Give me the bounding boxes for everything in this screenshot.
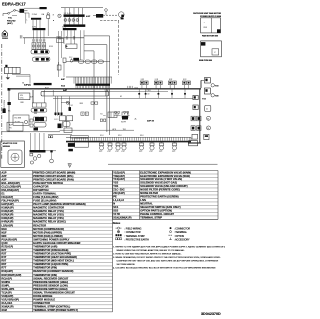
svg-text:Y3S: Y3S — [113, 184, 118, 188]
svg-text:MOTOR (COMPRESSOR): MOTOR (COMPRESSOR) — [33, 227, 64, 231]
svg-text:R31T,R32T(A2P): R31T,R32T(A2P) — [1, 273, 21, 277]
svg-text:S2S: S2S — [113, 209, 118, 213]
svg-text:PRINTED CIRCUIT BOARD (MAIN): PRINTED CIRCUIT BOARD (MAIN) — [33, 170, 75, 174]
svg-text:SOLENOID VALVE (HOT GAS): SOLENOID VALVE (HOT GAS) — [140, 181, 177, 185]
svg-text:PROTECTIVE EARTH (SCREW): PROTECTIVE EARTH (SCREW) — [140, 195, 178, 199]
svg-text:RESISTOR (CURRENT SENSOR): RESISTOR (CURRENT SENSOR) — [33, 269, 73, 273]
svg-text:PRINTED CIRCUIT BOARD (FAN): PRINTED CIRCUIT BOARD (FAN) — [33, 177, 74, 181]
svg-text:SUB PCB 888: SUB PCB 888 — [199, 60, 213, 62]
svg-text:DSW1: DSW1 — [2, 38, 9, 40]
svg-text:3. WHEN OPERATING, DO NOT SHOR: 3. WHEN OPERATING, DO NOT SHORT-CIRCUIT … — [113, 256, 221, 259]
svg-text:X1M(A1P): X1M(A1P) — [1, 305, 13, 309]
svg-text:PRESSURE SENSOR (LOW): PRESSURE SENSOR (LOW) — [33, 283, 68, 287]
svg-text:Z1C~Z9C: Z1C~Z9C — [113, 188, 124, 192]
svg-text:S1PH: S1PH — [121, 122, 127, 124]
svg-text:X1A: X1A — [61, 84, 65, 87]
svg-text:A3P(A): A3P(A) — [24, 84, 31, 87]
svg-text:R3T: R3T — [1, 252, 6, 256]
svg-text:C8: C8 — [147, 94, 149, 96]
svg-text:THERMISTOR (AIR): THERMISTOR (AIR) — [33, 244, 57, 248]
svg-text:A1P: A1P — [1, 170, 6, 174]
svg-text:PHASE CONTROL CIRCUIT: PHASE CONTROL CIRCUIT — [140, 212, 174, 216]
svg-text:TERMINAL STRIP: TERMINAL STRIP — [140, 216, 162, 220]
svg-text:: OPTION: : OPTION — [174, 236, 184, 238]
svg-text:PUSH BUTTON SWITCH: PUSH BUTTON SWITCH — [33, 181, 63, 185]
svg-text:PS(A1P,A2P): PS(A1P,A2P) — [1, 237, 17, 241]
svg-text:S1NPH: S1NPH — [1, 280, 10, 284]
svg-text:PRESSURE SWITCH (HIGH): PRESSURE SWITCH (HIGH) — [33, 287, 67, 291]
svg-text:MAGNETIC RELAY (Y2S): MAGNETIC RELAY (Y2S) — [33, 213, 64, 217]
svg-text:NOISE FILTER (FERRITE CORE): NOISE FILTER (FERRITE CORE) — [140, 188, 180, 192]
svg-text:R4T: R4T — [1, 255, 6, 259]
svg-text:FAN MOTOR 888: FAN MOTOR 888 — [202, 34, 219, 37]
svg-text:2.2kΩ: 2.2kΩ — [32, 14, 38, 16]
svg-text:A9P 88: A9P 88 — [147, 120, 155, 123]
svg-text:L1R(A2P): L1R(A2P) — [1, 223, 13, 227]
svg-text:888: 888 — [80, 103, 83, 105]
svg-text:S1PH,HPS: S1PH,HPS — [1, 287, 14, 291]
svg-text:Y1E: Y1E — [215, 86, 219, 88]
svg-text:R2T: R2T — [1, 248, 6, 252]
svg-text:RC 888: RC 888 — [15, 118, 21, 120]
svg-text:E2: E2 — [120, 96, 122, 98]
svg-text:X1A,X2A: X1A,X2A — [1, 301, 12, 305]
svg-text:WHEN USING THE OPTIONAL ADAPTO: WHEN USING THE OPTIONAL ADAPTOR, REFER T… — [117, 249, 186, 252]
svg-text:THERMISTOR (FIN): THERMISTOR (FIN) — [33, 266, 57, 270]
svg-text:K1R(A1P): K1R(A1P) — [1, 209, 13, 213]
svg-text:M1F: M1F — [1, 230, 7, 234]
svg-text:TC 88: TC 88 — [15, 122, 20, 124]
svg-text:V1TR: V1TR — [113, 212, 120, 216]
svg-text:DIP SWITCH: DIP SWITCH — [33, 188, 48, 192]
svg-text:CONNECTOR: CONNECTOR — [33, 301, 50, 305]
svg-text:ELECTRONIC EXPANSION VALVE (MA: ELECTRONIC EXPANSION VALVE (MAIN) — [140, 170, 191, 174]
svg-text:HAP(A1P): HAP(A1P) — [1, 202, 13, 206]
svg-text:T1C: T1C — [8, 18, 13, 20]
svg-text:A1P: A1P — [86, 15, 91, 18]
svg-text:: ACCESSORY: : ACCESSORY — [174, 238, 190, 241]
svg-text:REACTOR: REACTOR — [33, 223, 46, 227]
svg-text:Y1E(A1P): Y1E(A1P) — [113, 170, 125, 174]
svg-text:TERMINAL STRIP (POWER SUPPLY): TERMINAL STRIP (POWER SUPPLY) — [33, 308, 78, 312]
svg-text:R7T: R7T — [1, 266, 6, 270]
svg-text:A3P: A3P — [1, 177, 6, 181]
svg-text:1. REFER TO THE NAMEPLATE FOR: 1. REFER TO THE NAMEPLATE FOR THE APPLIC… — [113, 246, 225, 249]
svg-text:SETTING ERROR.: SETTING ERROR. — [117, 264, 136, 266]
svg-text:PRESSURE SENSOR (HIGH): PRESSURE SENSOR (HIGH) — [33, 280, 68, 284]
svg-text:3D042370D: 3D042370D — [201, 312, 221, 316]
svg-text:EARTH TERMINAL: EARTH TERMINAL — [33, 191, 56, 195]
svg-text:ELECTRONIC EXPANSION VALVE (SU: ELECTRONIC EXPANSION VALVE (SUB) — [140, 174, 190, 178]
svg-text:F3U,F4U(A2P): F3U,F4U(A2P) — [1, 199, 18, 203]
svg-text:R1T(A1P): R1T(A1P) — [1, 244, 13, 248]
svg-text:FUSE (T,3.15A,250V): FUSE (T,3.15A,250V) — [33, 195, 58, 199]
svg-text:RC(A1P): RC(A1P) — [1, 276, 12, 280]
svg-text:A1P: A1P — [45, 86, 49, 89]
svg-text:CAPACITOR: CAPACITOR — [33, 184, 48, 188]
svg-text:∅: ∅ — [214, 51, 216, 54]
svg-text:Y2S: Y2S — [113, 181, 118, 185]
svg-text:MAGNETIC RELAY (Y3S): MAGNETIC RELAY (Y3S) — [33, 216, 64, 220]
svg-text:SIGNAL RECEIVER CIRCUIT: SIGNAL RECEIVER CIRCUIT — [33, 276, 68, 280]
svg-text:N10: N10 — [135, 88, 138, 90]
svg-text:TB1: TB1 — [123, 129, 126, 131]
svg-text:MOTOR (FAN) (UPPER): MOTOR (FAN) (UPPER) — [33, 230, 62, 234]
svg-text:OUTDOOR UNIT FAN MOTOR: OUTDOOR UNIT FAN MOTOR — [193, 12, 222, 15]
svg-text:4. COLORS: BLK:BLACK RED:RED: 4. COLORS: BLK:BLACK RED:RED BLU:BLUE WH… — [113, 266, 216, 269]
svg-text:: PROTECTIVE EARTH: : PROTECTIVE EARTH — [125, 238, 150, 241]
svg-text:: TERMINAL STRIP: : TERMINAL STRIP — [125, 235, 146, 238]
svg-text:F1U(A1P): F1U(A1P) — [1, 195, 13, 199]
svg-text:S1S: S1S — [113, 205, 118, 209]
svg-text:K4R(A1P): K4R(A1P) — [1, 220, 13, 224]
svg-text:THERMISTOR (HEAT EXCHANGER): THERMISTOR (HEAT EXCHANGER) — [33, 255, 77, 259]
svg-text:M2F: M2F — [1, 234, 7, 238]
svg-text:R6T: R6T — [1, 262, 6, 266]
svg-text:V1R,V2R(A3P): V1R,V2R(A3P) — [1, 298, 19, 302]
svg-text:BS1~BS4(A1P): BS1~BS4(A1P) — [1, 181, 20, 185]
svg-text:L: L — [27, 20, 28, 22]
svg-text:K1M: K1M — [49, 46, 53, 48]
svg-text:-⊕-: -⊕- — [134, 118, 137, 121]
svg-text:M1C: M1C — [1, 227, 7, 231]
svg-text:MAGNETIC RELAY (E1HC): MAGNETIC RELAY (E1HC) — [33, 220, 66, 224]
svg-text:Y3E(A1P): Y3E(A1P) — [113, 174, 125, 178]
svg-text:N: N — [113, 202, 115, 206]
svg-text:L1,L2,L3: L1,L2,L3 — [113, 198, 124, 202]
svg-text:TERMINAL STRIP (CONTROL): TERMINAL STRIP (CONTROL) — [33, 305, 70, 309]
svg-text:M: M — [207, 128, 209, 130]
svg-text:WIRING: WIRING — [3, 146, 11, 148]
svg-text:THERMISTOR (SUCTION PIPE): THERMISTOR (SUCTION PIPE) — [33, 252, 71, 256]
svg-text:THERMISTOR (MID HEAT EXCH.): THERMISTOR (MID HEAT EXCH.) — [33, 259, 74, 263]
svg-text:FUSE (31.5A,500V): FUSE (31.5A,500V) — [33, 199, 56, 203]
svg-text:NOISE FILTER: NOISE FILTER — [140, 191, 158, 195]
svg-text:■: ■ — [53, 20, 54, 22]
svg-text:K3R(A1P): K3R(A1P) — [1, 216, 13, 220]
svg-text:A3P: A3P — [61, 78, 66, 81]
svg-text:R5T: R5T — [1, 259, 6, 263]
svg-text:EARTH LEAKAGE CIRCUIT BREAKER: EARTH LEAKAGE CIRCUIT BREAKER — [33, 241, 80, 245]
svg-text:SWITCHING POWER SUPPLY: SWITCHING POWER SUPPLY — [33, 237, 69, 241]
svg-text:▴▾▴: ▴▾▴ — [103, 114, 106, 117]
svg-text:OSC: OSC — [20, 98, 25, 100]
svg-text:PRINTED CIRCUIT BOARD (INV.): PRINTED CIRCUIT BOARD (INV.) — [33, 174, 73, 178]
svg-text:E1: E1 — [1, 191, 5, 195]
svg-text:SELECTOR SWITCH (FAN ONLY): SELECTOR SWITCH (FAN ONLY) — [140, 205, 180, 209]
svg-text:: FIELD WIRING: : FIELD WIRING — [125, 229, 142, 231]
svg-text:MAGNETIC RELAY (Y1S): MAGNETIC RELAY (Y1S) — [33, 209, 64, 213]
svg-text:POWER MODULE: POWER MODULE — [33, 298, 55, 302]
svg-text:THERMISTOR (FIN): THERMISTOR (FIN) — [33, 273, 57, 277]
svg-text:X1M: X1M — [1, 308, 6, 312]
svg-text:888: 888 — [20, 102, 23, 104]
svg-text:: CONNECTOR: : CONNECTOR — [125, 232, 141, 234]
svg-text:Q1DI: Q1DI — [1, 241, 7, 245]
svg-text:: CONNECTOR: : CONNECTOR — [174, 229, 190, 231]
svg-text:MOTOR (FAN) (LOWER): MOTOR (FAN) (LOWER) — [33, 234, 62, 238]
svg-text:SIGNAL TRANSMISSION CIRCUIT: SIGNAL TRANSMISSION CIRCUIT — [33, 290, 75, 294]
svg-text:DS1,DS2(A1P): DS1,DS2(A1P) — [1, 188, 19, 192]
svg-text:SOLENOID VALVE (UNLOAD CIRCUIT: SOLENOID VALVE (UNLOAD CIRCUIT) — [140, 184, 187, 188]
svg-text:CONFIRM THE SETTING OF DS1 AND: CONFIRM THE SETTING OF DS1 AND DS2 SWITC… — [117, 259, 219, 262]
svg-text:Notes: Notes — [113, 221, 121, 225]
svg-text:K2R(A1P): K2R(A1P) — [1, 213, 13, 217]
svg-text:R10(A2P): R10(A2P) — [1, 269, 13, 273]
svg-text:V1R(A2P): V1R(A2P) — [1, 294, 13, 298]
svg-text:Z1F(A1P): Z1F(A1P) — [113, 191, 125, 195]
svg-text:SOLENOID VALVE (4 WAY VALVE): SOLENOID VALVE (4 WAY VALVE) — [140, 177, 182, 181]
svg-text:(A2P): (A2P) — [7, 22, 13, 25]
svg-text:PE: PE — [113, 195, 117, 199]
svg-text:M: M — [207, 119, 209, 121]
svg-text:X1M,X2M(A1P): X1M,X2M(A1P) — [113, 216, 131, 220]
svg-text:C1,C2,C63(A2P): C1,C2,C63(A2P) — [1, 184, 21, 188]
svg-text:DIODE BRIDGE: DIODE BRIDGE — [33, 294, 52, 298]
svg-text:2. HOW TO USE BS1~BS4 SWITCH,: 2. HOW TO USE BS1~BS4 SWITCH, REFER TO S… — [113, 253, 182, 256]
svg-text:: TERMINAL: : TERMINAL — [174, 231, 188, 234]
svg-text:888: 888 — [34, 113, 37, 115]
svg-text:THERMISTOR (DISCHARGE): THERMISTOR (DISCHARGE) — [33, 248, 68, 252]
svg-text:LIVE: LIVE — [140, 198, 146, 202]
svg-text:S2: S2 — [71, 105, 73, 107]
svg-text:MAGNETIC CONTACTOR: MAGNETIC CONTACTOR — [33, 206, 64, 210]
svg-text:S1NPL: S1NPL — [1, 283, 10, 287]
svg-text:Y1S(A1P): Y1S(A1P) — [113, 177, 125, 181]
svg-text:TC(A1P): TC(A1P) — [1, 290, 11, 294]
svg-text:K1M(A1P): K1M(A1P) — [1, 206, 13, 210]
svg-text:ADAPTOR FOR: ADAPTOR FOR — [3, 142, 18, 145]
svg-text:EDRA-EK17: EDRA-EK17 — [2, 2, 26, 7]
svg-text:Y3E: Y3E — [215, 96, 219, 98]
svg-text:NEUTRAL: NEUTRAL — [140, 202, 153, 206]
svg-text:C163: C163 — [146, 90, 150, 92]
svg-text:PILOT LAMP (SERVICE MONITOR GR: PILOT LAMP (SERVICE MONITOR GREEN) — [33, 202, 85, 206]
svg-text:THERMISTOR (LIQUID PIPE): THERMISTOR (LIQUID PIPE) — [33, 262, 68, 266]
svg-text:Y1S: Y1S — [202, 98, 206, 100]
svg-text:A2P: A2P — [1, 174, 6, 178]
svg-text:OPTION PARTS (OPTION): OPTION PARTS (OPTION) — [140, 209, 172, 213]
